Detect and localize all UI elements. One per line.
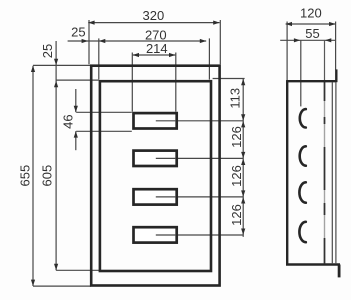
dimension 126 third arrows: [241, 197, 245, 235]
dimension 25 horizontal arrows: [82, 39, 106, 43]
dimension 214 label: [146, 41, 168, 56]
svg-text:126: 126: [229, 126, 244, 148]
slot 2 leader: [156, 157, 176, 159]
dimension 25 horizontal label: [71, 25, 85, 40]
dimension 270 label: [145, 28, 167, 43]
dimension 126 first arrows: [241, 121, 245, 158]
svg-text:126: 126: [229, 165, 244, 187]
dimension 655 label: [18, 165, 33, 187]
dimension 25 vertical label: [40, 44, 55, 58]
dimension 320 label: [143, 8, 165, 23]
dimension 55 arrows: [294, 38, 331, 42]
slot 3 leader: [156, 196, 176, 198]
side view back top stub: [335, 69, 337, 82]
svg-text:605: 605: [40, 165, 55, 187]
svg-text:25: 25: [71, 25, 85, 40]
dimension 55 (side view depth): [280, 40, 335, 106]
slot 4 leader: [156, 234, 176, 236]
front view inner frame rectangle: [100, 81, 211, 271]
slot 4: [134, 227, 177, 242]
dimension 605 label: [40, 165, 55, 187]
dimension 320 arrows: [88, 21, 219, 25]
dimension 126 first label: [229, 126, 244, 148]
dimension 655 arrows: [31, 66, 35, 286]
side view back wall outer line: [335, 82, 337, 263]
dimension 120 label: [300, 5, 322, 20]
side view back wall inner line: [331, 82, 333, 263]
dimension 25 vertical + 605 (shared line): [56, 41, 99, 270]
dimension 25 vertical arrows: [54, 59, 58, 87]
svg-text:655: 655: [18, 165, 33, 187]
dimension 46 label: [60, 114, 75, 128]
dimension 55 label: [305, 26, 319, 41]
slot 1 leader: [156, 120, 176, 122]
knockout arc 2: [300, 146, 306, 165]
side view left edge: [286, 80, 288, 264]
slot 2: [134, 151, 177, 166]
side view bottom edge: [286, 263, 340, 266]
dimension 655 (left, overall height): [33, 65, 91, 286]
svg-text:46: 46: [60, 114, 75, 128]
svg-text:126: 126: [229, 204, 244, 226]
dimension 214 arrows: [133, 53, 176, 57]
dimension 214 (slot width): [132, 53, 176, 112]
dimension 46 (slot height): [76, 89, 132, 150]
svg-text:320: 320: [143, 8, 165, 23]
svg-text:120: 120: [300, 5, 322, 20]
knockout arc 3: [299, 182, 305, 202]
dimension 605 bottom arrow: [54, 264, 58, 270]
side view inner depth line (hidden edge): [324, 40, 326, 263]
dimension 320 (top, front view overall width): [88, 20, 220, 64]
dimension 25 horizontal + 270 (shared line): [68, 38, 210, 79]
dimension 126 third label: [229, 204, 244, 226]
dimension 120 arrows: [286, 22, 336, 26]
slot 1: [134, 113, 177, 128]
svg-text:113: 113: [227, 88, 242, 109]
dimension 120 (side view width): [286, 22, 336, 81]
right dimension column line with slot leaders: [156, 79, 245, 237]
dimension 126 second arrows: [241, 159, 245, 197]
knockout arc 4: [299, 222, 305, 242]
knockout arc 1: [300, 109, 306, 127]
dimension 270 right arrow: [200, 39, 206, 43]
slot 3: [134, 189, 177, 204]
side view top edge: [286, 80, 336, 82]
front view outer rectangle: [91, 66, 219, 286]
svg-text:214: 214: [146, 41, 168, 56]
dimension 113 arrows: [241, 79, 245, 121]
svg-text:55: 55: [305, 26, 319, 41]
dimension 113 label: [227, 88, 242, 109]
svg-text:25: 25: [40, 44, 55, 58]
dimension 46 arrows: [74, 106, 78, 138]
dimension 126 second label: [229, 165, 244, 187]
side view bottom right hook: [338, 265, 341, 278]
